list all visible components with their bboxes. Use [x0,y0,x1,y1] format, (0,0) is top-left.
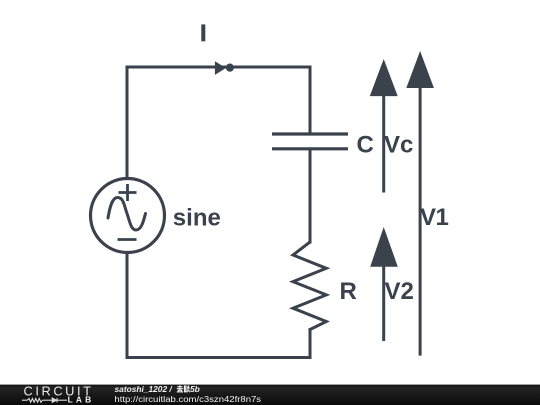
current arrow head on top wire [215,61,226,75]
wire: capacitor to resistor [309,149,312,244]
wire: source bottom lead (left vertical) [126,252,129,359]
current arrow dot on top wire [226,64,234,72]
svg-text:V1: V1 [420,204,449,231]
svg-text:Vc: Vc [384,131,413,158]
wire: bottom horizontal [126,356,312,359]
footer kanji 実 (drawn strokes) [177,385,183,392]
wire: top horizontal [126,66,312,69]
svg-text:R: R [340,278,357,305]
resistor R zigzag [293,242,326,330]
voltage arrow Vc head [370,59,398,96]
footer black bar [0,385,540,405]
svg-text:satoshi_1202 /: satoshi_1202 / [115,384,174,394]
voltage source minus sign [118,238,137,241]
voltage arrow V2 shaft [382,264,385,341]
footer kanji 験 (drawn strokes) [184,385,190,392]
label I [201,24,205,41]
voltage arrow V1 head [406,51,434,88]
wire: right vertical to capacitor top [309,66,312,135]
voltage arrow V2 head [370,227,398,267]
svg-text:http://circuitlab.com/c3szn42f: http://circuitlab.com/c3szn42fr8n7s [114,394,261,404]
svg-text:sine: sine [173,205,221,232]
voltage source sine wave symbol [108,198,146,231]
capacitor C bottom plate [272,147,348,150]
CircuitLab logo doodle wire with resistor and diode [22,398,67,402]
voltage source V sine: circle [91,179,165,253]
svg-text:5b: 5b [190,384,200,394]
svg-text:C: C [357,131,374,158]
voltage source plus sign [119,184,137,201]
voltage arrow Vc shaft [382,94,385,193]
svg-text:V2: V2 [385,278,414,305]
wire: resistor to bottom [309,328,312,359]
svg-text:LAB: LAB [68,395,95,405]
capacitor C top plate [272,132,348,135]
voltage arrow V1 shaft [419,86,422,356]
wire: source top lead (left vertical) [126,66,129,180]
